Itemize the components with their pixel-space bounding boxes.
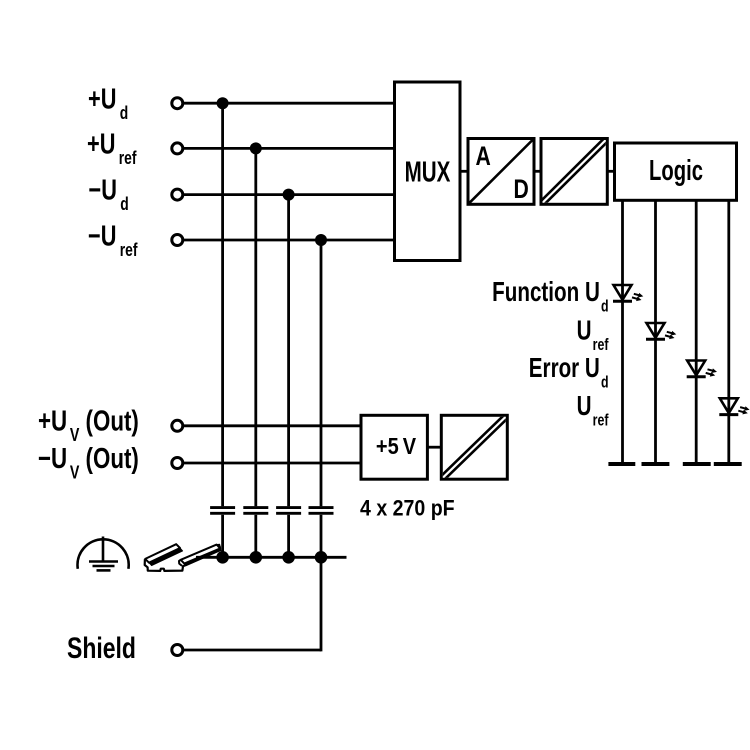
LED line 4 (727, 200, 730, 464)
isolator block 2 (440, 414, 509, 481)
svg-text:D: D (514, 175, 529, 205)
wire +5V to isolator 2 (427, 446, 441, 449)
wire +Uref to MUX (184, 147, 395, 150)
capacitor C2 (243, 508, 268, 514)
wire vertical drop 4 (320, 240, 323, 557)
svg-text:Logic: Logic (649, 156, 703, 187)
terminal -Uref (172, 235, 183, 246)
LED return bar 3 (683, 462, 711, 466)
terminal +Uv (172, 420, 183, 431)
isolator block 1 (540, 137, 609, 206)
wire Shield vertical (320, 557, 323, 651)
+5V block (361, 415, 427, 479)
LED D2 (646, 323, 676, 339)
ground bus wire (196, 556, 347, 559)
wire -Uv to +5V (184, 462, 361, 465)
MUX block (395, 82, 461, 261)
wire -Uref to MUX (184, 239, 395, 242)
wire vertical drop 2 (254, 148, 257, 557)
svg-text:Shield: Shield (67, 631, 136, 665)
bus junction 1 (216, 551, 229, 564)
svg-text:MUX: MUX (405, 156, 451, 188)
junction node 3 (283, 189, 295, 201)
LED line 1 (621, 200, 624, 464)
capacitor C4 (309, 508, 334, 514)
junction node 1 (217, 97, 229, 109)
capacitor C3 (276, 508, 301, 514)
A/D converter block (468, 139, 534, 205)
wire MUX to A/D (460, 170, 468, 173)
Logic block (615, 143, 737, 200)
wire +Ud to MUX (184, 102, 395, 105)
LED D1 (613, 285, 643, 301)
LED line 2 (654, 200, 657, 464)
bus junction 4 (315, 551, 328, 564)
wire vertical drop 1 (221, 103, 224, 557)
LED line 3 (695, 200, 698, 464)
terminal -Ud (172, 189, 183, 200)
LED D3 (687, 361, 717, 377)
LED return bar 4 (714, 462, 742, 466)
junction node 4 (315, 234, 327, 246)
terminal -Uv (172, 458, 183, 469)
LED return bar 2 (642, 462, 670, 466)
LED D4 (719, 398, 749, 414)
wire Shield horizontal (184, 649, 321, 652)
svg-text:+5 V: +5 V (376, 432, 417, 459)
wire isolator to Logic (607, 170, 614, 173)
terminal Shield (172, 645, 183, 656)
terminal +Ud (172, 98, 183, 109)
DIN rail symbol (145, 544, 221, 571)
LED return bar 1 (608, 462, 635, 466)
wire +Uv to +5V (184, 424, 361, 427)
capacitor C1 (210, 508, 235, 514)
svg-text:4 x 270 pF: 4 x 270 pF (360, 496, 455, 521)
svg-text:A: A (476, 142, 491, 172)
bus junction 3 (282, 551, 295, 564)
wire vertical drop 3 (287, 195, 290, 558)
earth ground symbol (78, 537, 129, 571)
wire -Ud to MUX (184, 193, 395, 196)
bus junction 2 (250, 551, 263, 564)
wire A/D to isolator (534, 170, 541, 173)
junction node 2 (250, 142, 262, 154)
terminal +Uref (172, 143, 183, 154)
